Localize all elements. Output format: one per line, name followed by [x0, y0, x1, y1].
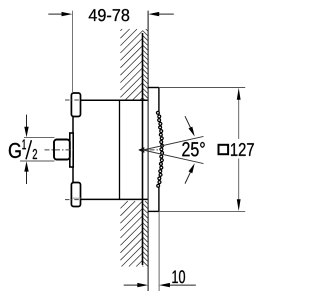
dim 49-78 left arrow — [48, 13, 63, 15]
dim 49-78 left extension — [72, 11, 74, 92]
25deg upper ray — [143, 136, 204, 150]
plaster herringbone hatch — [142, 29, 148, 267]
dim 127 top extension — [159, 87, 245, 89]
flange plate — [70, 133, 73, 167]
lug centerline bottom — [65, 199, 81, 201]
text 127 — [231, 143, 254, 156]
dim 127 bottom extension — [159, 210, 245, 212]
centerline right — [139, 149, 163, 151]
fraction slash — [26, 140, 31, 159]
text 10 — [172, 270, 185, 283]
G1/2 extension bottom — [20, 160, 55, 162]
lug centerline top — [65, 99, 81, 101]
body step line — [119, 100, 121, 199]
tile face line / extension line — [147, 11, 149, 291]
text 2 — [33, 149, 37, 159]
dim 10 right extension — [158, 211, 160, 291]
escutcheon bottom edge — [148, 210, 159, 212]
text G — [9, 143, 21, 158]
25deg lower arrow — [185, 172, 190, 183]
text 49-78 — [89, 9, 130, 21]
dim 49-78 right arrow — [158, 13, 174, 15]
mounting lug top — [71, 93, 80, 117]
concealed body outline — [72, 93, 147, 207]
25deg vertex wedge — [138, 147, 144, 153]
25deg lower ray — [143, 150, 204, 164]
G1/2 extension top — [24, 136, 55, 138]
escutcheon front face lower — [158, 186, 160, 211]
wall hatch section — [120, 29, 142, 267]
dim 127 line upper — [238, 99, 240, 139]
wall face line — [142, 33, 144, 265]
escutcheon top edge — [148, 87, 159, 89]
dim 127 line lower — [238, 159, 240, 201]
spray nozzles — [156, 111, 163, 187]
spray face dome — [159, 114, 162, 186]
escutcheon front face upper — [158, 88, 160, 115]
dim 10 left arrow — [124, 284, 138, 286]
G1/2 arrow top — [26, 115, 28, 128]
square symbol — [219, 145, 229, 154]
dim 127 arrow down — [237, 199, 241, 211]
G1/2 arrow bottom — [26, 171, 28, 184]
centerline left — [45, 149, 74, 151]
faint body edge behind bottom lug — [72, 197, 80, 199]
dim 127 arrow up — [237, 88, 241, 100]
G1/2 stub — [54, 140, 70, 160]
25deg upper arrow — [185, 116, 190, 127]
text 1 — [22, 139, 26, 149]
dim 10 right arrow — [169, 284, 196, 286]
text 25deg — [182, 142, 204, 156]
mounting lug bottom — [71, 183, 80, 207]
